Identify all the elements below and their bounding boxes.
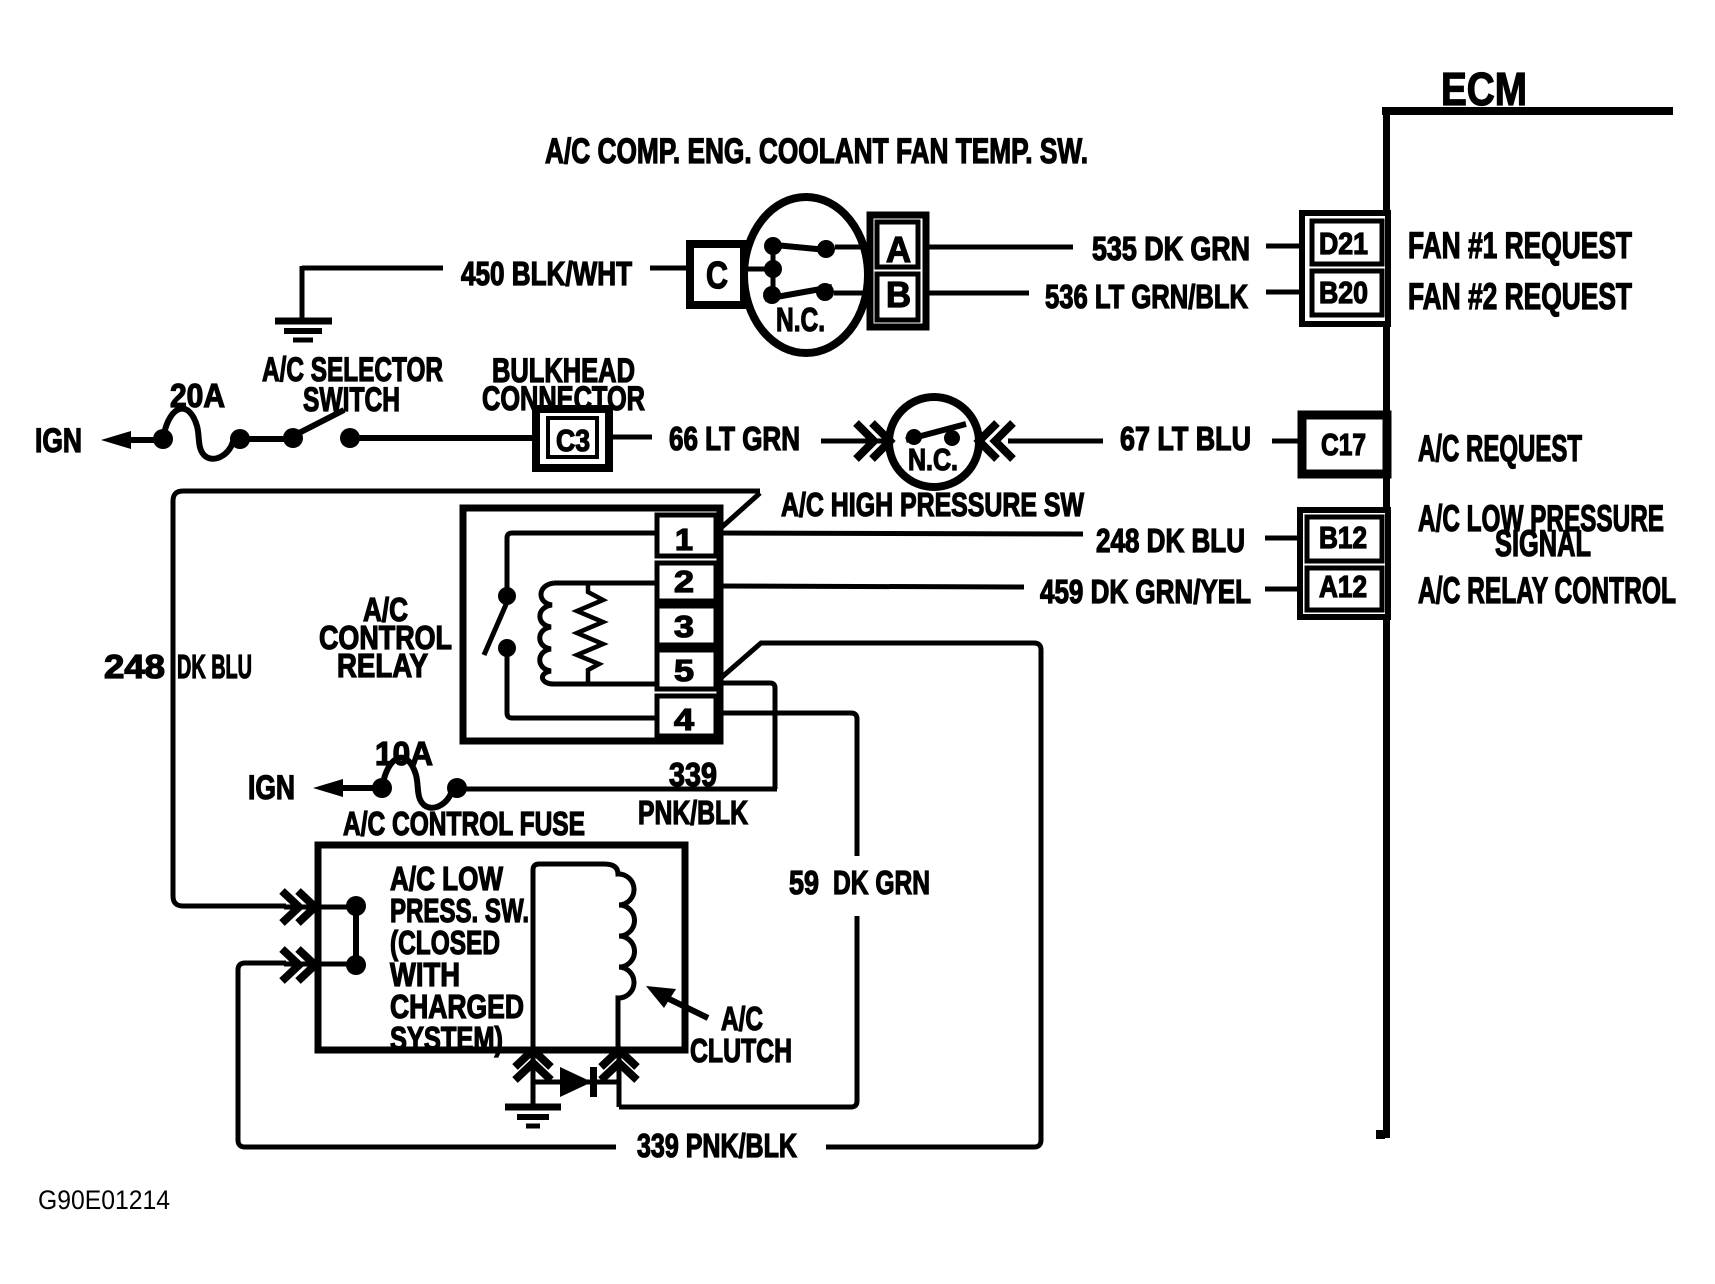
svg-text:459 DK GRN/YEL: 459 DK GRN/YEL [1040, 573, 1251, 610]
wire left clutch terminal down to ground [531, 1048, 536, 1104]
wire label 339 PNK/BLK (at fuse) [638, 756, 748, 831]
svg-text:RELAY: RELAY [337, 647, 428, 684]
diode D1 across clutch [533, 1067, 619, 1097]
temp sw contact to A (closed) [775, 240, 872, 258]
relay internal wire pin1 to switch [507, 533, 657, 590]
wire 450 BLK/WHT (ground to temp sw C) [302, 255, 691, 318]
svg-text:A/C HIGH PRESSURE SW: A/C HIGH PRESSURE SW [781, 486, 1085, 523]
A/C control relay K1 body [463, 508, 720, 741]
svg-text:SWITCH: SWITCH [303, 381, 400, 419]
svg-text:A12: A12 [1319, 569, 1367, 604]
wire 66 LT GRN (C3 to high pressure sw) [609, 420, 892, 457]
HP switch contacts (closed) [906, 424, 966, 446]
svg-text:D21: D21 [1319, 226, 1368, 261]
temp sw pins A/B box [870, 215, 926, 327]
svg-text:IGN: IGN [248, 769, 295, 807]
relay coil L1 (between pins 2 and 5) [540, 583, 657, 684]
wire right clutch terminal down [617, 1048, 622, 1107]
junction dot (fuse left) [153, 429, 173, 449]
wire 248 DK BLU branch (relay pin 1 to low pressure sw) [173, 491, 760, 906]
svg-text:IGN: IGN [35, 422, 82, 460]
ground G2 (clutch) [505, 1107, 561, 1126]
wire selector switch to C3 [359, 435, 538, 441]
A/C low pressure switch / clutch assembly box [318, 845, 685, 1050]
svg-text:C17: C17 [1321, 427, 1366, 462]
ECM pin D21 / B20 connector block [1302, 213, 1388, 324]
svg-text:DK GRN: DK GRN [833, 864, 930, 901]
temp sw internal common node [744, 237, 782, 304]
svg-text:5: 5 [674, 653, 694, 688]
svg-text:A: A [886, 229, 911, 270]
svg-text:C3: C3 [556, 423, 590, 458]
ECM pin C17 box [1302, 415, 1387, 474]
ECM top border [1382, 107, 1673, 115]
wire 535 DK GRN (temp sw A to ECM D21) [926, 230, 1304, 267]
svg-text:2: 2 [674, 564, 694, 599]
bulkhead connector C3 box [536, 409, 609, 468]
svg-text:535 DK GRN: 535 DK GRN [1092, 230, 1250, 267]
fuse F1 20A squiggle [164, 409, 233, 459]
svg-text:20A: 20A [170, 377, 225, 414]
svg-text:536 LT GRN/BLK: 536 LT GRN/BLK [1045, 278, 1248, 315]
svg-text:C: C [706, 255, 728, 297]
wire 459 DK GRN/YEL (relay pin 2 to ECM A12) [716, 573, 1302, 610]
wire 536 LT GRN/BLK (temp sw B to ECM B20) [926, 278, 1304, 315]
relay pin boxes 1,2,3,5,4 [657, 515, 716, 737]
svg-text:FAN #2 REQUEST: FAN #2 REQUEST [1408, 276, 1632, 317]
clutch terminal chevrons (pointing up, right) [601, 1050, 637, 1080]
A/C CLUTCH label with arrow [646, 986, 792, 1069]
clutch terminal chevrons (pointing up, left) [515, 1050, 551, 1080]
svg-text:G90E01214: G90E01214 [38, 1185, 170, 1215]
svg-text:339 PNK/BLK: 339 PNK/BLK [637, 1127, 797, 1164]
svg-text:3: 3 [674, 609, 694, 644]
relay internal switch (contacts) [484, 587, 516, 657]
ECM pin B12 / A12 connector block [1300, 510, 1388, 617]
ECM left border [1383, 107, 1390, 1138]
svg-text:B: B [886, 274, 911, 315]
ground G1 (450 BLK/WHT) [275, 321, 332, 340]
svg-text:B12: B12 [1319, 520, 1367, 555]
inline connector chevrons (low press sw top terminal) [282, 891, 348, 923]
A/C selector switch S2 [283, 410, 360, 448]
A/C LOW PRESS. SW. (CLOSED WITH CHARGED SYSTEM) label [390, 860, 529, 1057]
svg-text:1: 1 [675, 522, 693, 557]
wire 67 LT BLU (HP switch to ECM C17) [1008, 420, 1304, 457]
svg-text:339: 339 [669, 756, 717, 793]
A/C comp. eng. coolant fan temp switch S1 (circle, N.C.) [744, 197, 868, 353]
svg-text:N.C.: N.C. [908, 442, 958, 477]
pin label A/C LOW PRESSURE SIGNAL [1418, 498, 1664, 564]
wire fuse to selector switch [248, 436, 287, 442]
wire 10A fuse to relay pin 5 riser [466, 787, 777, 792]
inline connector chevrons (left of HP switch) [856, 423, 890, 459]
svg-text:67 LT BLU: 67 LT BLU [1120, 420, 1251, 457]
svg-text:A/C COMP. ENG. COOLANT FAN TEM: A/C COMP. ENG. COOLANT FAN TEMP. SW. [545, 132, 1088, 171]
svg-text:59: 59 [789, 864, 819, 901]
inline connector chevrons (low press sw bottom terminal) [282, 949, 348, 981]
svg-text:CLUTCH: CLUTCH [690, 1032, 792, 1069]
svg-text:SIGNAL: SIGNAL [1495, 523, 1591, 564]
svg-text:CONNECTOR: CONNECTOR [482, 380, 645, 418]
temp sw contact to B (closed) [765, 283, 872, 301]
BULKHEAD CONNECTOR label [482, 352, 645, 418]
wire 59 DK GRN (relay pin 4 to A/C clutch) [619, 713, 857, 1107]
wire 339 PNK/BLK (relay pin 5 to 10A fuse) [716, 683, 775, 789]
svg-text:DK BLU: DK BLU [177, 648, 252, 685]
fuse F2 10A squiggle [383, 758, 452, 808]
wire label 59 DK GRN [789, 864, 930, 901]
svg-text:N.C.: N.C. [776, 301, 825, 338]
junction dot (fuse right) [230, 429, 250, 449]
svg-text:A/C REQUEST: A/C REQUEST [1418, 428, 1582, 469]
svg-text:FAN #1 REQUEST: FAN #1 REQUEST [1408, 225, 1632, 266]
svg-text:A/C RELAY CONTROL: A/C RELAY CONTROL [1418, 570, 1676, 611]
arrow to IGN [101, 431, 158, 449]
svg-text:450 BLK/WHT: 450 BLK/WHT [461, 255, 632, 292]
wire label 248 DK BLU (left) [104, 648, 252, 685]
A/C high pressure switch S3 (circle, N.C.) [889, 397, 979, 487]
relay resistor R1 (parallel with coil) [577, 583, 603, 684]
relay internal wire switch to pin4 [507, 655, 657, 718]
temp sw pin C box [690, 244, 744, 305]
svg-text:248 DK BLU: 248 DK BLU [1096, 522, 1245, 559]
junction dot (10A fuse right) [447, 778, 467, 798]
A/C clutch coil L2 [533, 864, 635, 1048]
arrow to IGN (bottom) [313, 779, 374, 797]
A/C CONTROL RELAY label [319, 591, 452, 684]
A/C SELECTOR SWITCH label [262, 351, 443, 419]
svg-text:SYSTEM): SYSTEM) [390, 1020, 503, 1057]
inline connector chevrons (right of HP switch) [979, 423, 1013, 459]
svg-text:B20: B20 [1319, 275, 1368, 310]
svg-text:10A: 10A [375, 735, 433, 772]
wire 339 PNK/BLK (relay pin 5 to low press sw, via bottom) [238, 643, 1041, 1147]
wire 248 DK BLU (relay pin 1 to ECM B12) [716, 522, 1302, 559]
A/C low pressure switch S4 (closed) [346, 896, 366, 975]
svg-text:66 LT GRN: 66 LT GRN [669, 420, 800, 457]
svg-text:PNK/BLK: PNK/BLK [638, 794, 748, 831]
junction dot (10A fuse left) [372, 778, 392, 798]
svg-text:4: 4 [674, 702, 695, 737]
svg-text:A/C CONTROL FUSE: A/C CONTROL FUSE [343, 805, 585, 842]
svg-text:248: 248 [104, 648, 165, 685]
